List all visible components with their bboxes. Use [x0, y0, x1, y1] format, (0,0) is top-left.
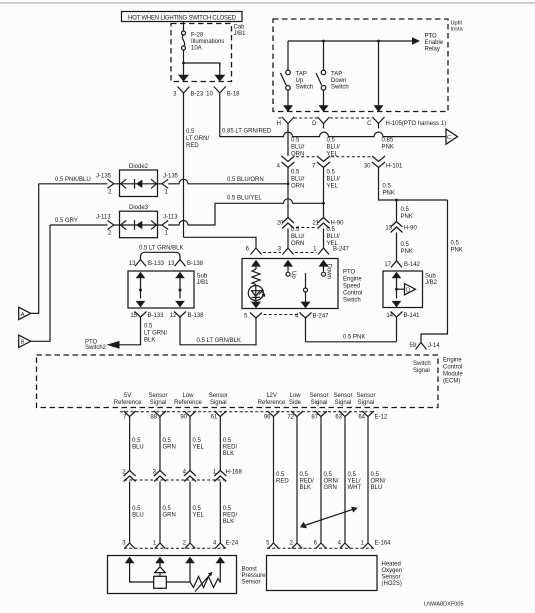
svg-text:Pressure: Pressure — [242, 573, 267, 579]
svg-text:B-138: B-138 — [187, 261, 204, 267]
svg-text:13: 13 — [129, 261, 136, 267]
connector B-247 pin 5 — [244, 313, 262, 323]
svg-text:BLU/: BLU/ — [327, 234, 341, 240]
svg-text:C: C — [367, 121, 372, 127]
svg-text:D: D — [312, 121, 317, 127]
svg-text:Module: Module — [443, 372, 463, 378]
svg-text:0.5: 0.5 — [144, 324, 153, 330]
connector E-24 bus dashes — [124, 547, 228, 549]
svg-text:Signal: Signal — [210, 400, 227, 406]
wire branch to right drop — [184, 63, 220, 66]
connector B-247 bottom bus dashes — [264, 314, 299, 316]
svg-text:B-138: B-138 — [188, 313, 205, 319]
svg-text:J/B2: J/B2 — [425, 280, 438, 286]
svg-text:LT GRN/: LT GRN/ — [144, 331, 167, 337]
svg-text:0.5 LT GRN/BLK: 0.5 LT GRN/BLK — [139, 245, 183, 251]
ECM pin 7 5V Reference — [114, 393, 142, 422]
switch contact Up — [286, 271, 296, 279]
ECM pin 88 Sensor Signal — [148, 393, 167, 422]
svg-text:B: B — [21, 340, 25, 346]
svg-text:0.5: 0.5 — [132, 438, 141, 444]
wire from ECM pin to H-168 pin 1 — [220, 422, 237, 470]
ECM pin 61 Sensor Signal — [209, 393, 228, 422]
J/B2 leg arrows and buffer D — [392, 272, 416, 308]
junction block Cab J/B1 (dashed box) — [171, 24, 246, 82]
connector H-168 bus dashes — [124, 479, 228, 481]
svg-text:0.5: 0.5 — [300, 472, 309, 478]
svg-text:13: 13 — [168, 261, 175, 267]
svg-text:Signal: Signal — [358, 400, 375, 406]
diode Diode2 — [114, 164, 158, 197]
svg-text:H: H — [277, 121, 281, 127]
svg-text:0.5 BLU/ORN: 0.5 BLU/ORN — [227, 177, 264, 183]
inline connector H-90 pin 21 — [312, 218, 344, 248]
connector H-105 pin D — [312, 117, 329, 129]
svg-text:TAP: TAP — [296, 72, 307, 78]
connector J-113 pin 2 (left of Diode3) — [96, 215, 114, 237]
wire to E-24 pin 3 — [130, 482, 144, 544]
svg-text:J/B1: J/B1 — [197, 280, 210, 286]
off-page triangle C right — [446, 129, 458, 144]
svg-text:J-135: J-135 — [96, 174, 112, 180]
svg-text:10A: 10A — [191, 46, 202, 52]
sensor pin entry arrow — [155, 557, 165, 568]
svg-text:Up: Up — [290, 271, 296, 279]
svg-text:Enable: Enable — [425, 40, 444, 46]
connector B-247 pin 6 — [246, 244, 262, 255]
svg-text:Low: Low — [289, 393, 301, 399]
svg-text:0.5: 0.5 — [163, 438, 172, 444]
wire from ECM pin to H-168 pin 3 — [160, 422, 176, 470]
wire LT GRN/RED corner to B-247 pin 6 — [184, 237, 257, 243]
connector J-14 pin 59 — [409, 343, 440, 350]
svg-text:0.5: 0.5 — [193, 438, 202, 444]
svg-text:61: 61 — [211, 414, 218, 420]
junction block Sub J/B1 — [128, 271, 209, 308]
wire to E-24 pin 1 — [160, 482, 176, 544]
junction block Sub J/B2 — [383, 271, 438, 308]
svg-text:B-133: B-133 — [148, 313, 165, 319]
wire 0.5 BLU/ORN from diode2 (hop over LT GRN/RED) — [168, 177, 288, 184]
svg-text:B-133: B-133 — [148, 261, 165, 267]
svg-text:13: 13 — [385, 226, 392, 232]
svg-text:Relay: Relay — [425, 47, 440, 53]
svg-text:0.5: 0.5 — [186, 129, 195, 135]
wire from ECM to E-164 pin 6 — [321, 422, 339, 543]
svg-text:Sub: Sub — [425, 274, 436, 280]
svg-text:Speed: Speed — [343, 284, 360, 290]
connector B-247 pin 4 — [295, 313, 329, 323]
svg-text:F-28: F-28 — [191, 33, 204, 39]
svg-text:88: 88 — [150, 414, 157, 420]
svg-text:E-12: E-12 — [375, 414, 388, 420]
svg-text:PNK: PNK — [382, 144, 394, 150]
svg-text:YEL/: YEL/ — [348, 479, 361, 485]
svg-text:Diode2: Diode2 — [129, 164, 149, 170]
svg-text:0.5: 0.5 — [401, 242, 410, 248]
connector H-105 pin H — [277, 117, 294, 129]
svg-text:BLK: BLK — [223, 519, 234, 525]
wire 0.5 LT GRN/BLK to B-247 pin 5 — [180, 322, 256, 345]
svg-text:0.5 GRY: 0.5 GRY — [55, 218, 78, 224]
connector B-18 pin 10 — [206, 87, 240, 103]
sensor pin entry arrow — [216, 557, 226, 568]
inline connector H-90 pin 20 — [277, 218, 305, 248]
svg-text:0.5 PNK/BLU: 0.5 PNK/BLU — [55, 177, 91, 183]
svg-text:H-168: H-168 — [226, 470, 243, 476]
svg-text:Side: Side — [289, 400, 302, 406]
pressure transducer element — [154, 567, 167, 589]
node BLU/YEL join — [322, 202, 325, 205]
svg-text:0.5: 0.5 — [132, 506, 141, 512]
pin 6 entry arrow — [251, 260, 261, 269]
svg-text:PNK: PNK — [401, 249, 413, 255]
connector B-23 pin 3 — [173, 87, 204, 103]
svg-text:H-101: H-101 — [386, 163, 403, 169]
svg-text:0.5: 0.5 — [327, 137, 336, 143]
svg-text:14: 14 — [386, 313, 393, 319]
svg-text:RED/: RED/ — [300, 479, 315, 485]
svg-text:87: 87 — [311, 414, 318, 420]
wire 0.5 PNK branch to H-90 pin 13 — [396, 200, 398, 222]
connector E-164 pin 6 — [314, 541, 327, 549]
inline connector H-168 pin 3 — [153, 470, 166, 482]
arrow into B-18 — [214, 63, 225, 82]
connector E-24 pin 1 — [153, 541, 166, 549]
svg-text:H-105(PTO harness 1): H-105(PTO harness 1) — [386, 121, 447, 127]
wire 0.5 PNK right branch — [421, 200, 463, 343]
svg-text:(HO2S): (HO2S) — [382, 581, 402, 587]
svg-text:30: 30 — [364, 163, 371, 169]
svg-text:Sensor: Sensor — [242, 580, 261, 586]
svg-text:Sensor: Sensor — [356, 393, 375, 399]
svg-text:ORN: ORN — [291, 184, 304, 190]
PTO Engine Speed Control Switch box — [242, 259, 362, 309]
svg-text:J-14: J-14 — [428, 343, 440, 349]
wire H vertical to B-247 pin3 — [287, 229, 289, 244]
svg-text:Insta: Insta — [451, 27, 464, 33]
svg-text:PNK: PNK — [383, 190, 395, 196]
connector E-164 pin 4 — [338, 541, 351, 549]
connector B-138 pin 12 — [170, 312, 204, 322]
connector E-24 pin 4 — [213, 541, 226, 549]
svg-text:B-247: B-247 — [333, 247, 350, 253]
pin 1 entry arrow — [319, 260, 329, 272]
wire B-141 to PNK run — [396, 322, 398, 342]
svg-text:YEL: YEL — [193, 513, 205, 519]
connector E-164 pin 5 — [266, 541, 279, 549]
svg-text:GRN: GRN — [324, 485, 337, 491]
connector J-135 pin 2 (left of Diode2) — [96, 174, 114, 196]
wire D vertical continue — [323, 168, 325, 218]
inline connector H-90 pin 13 — [385, 222, 417, 233]
wire to PTO Enable Relay — [288, 34, 444, 53]
wire 0.85 LT GRN/RED to triangle C — [220, 102, 446, 137]
wire 0.5 BLU/YEL from diode3 (hops) — [168, 196, 323, 225]
wire from ECM pin to H-168 pin 4 — [190, 422, 205, 470]
svg-text:YEL: YEL — [327, 184, 339, 190]
svg-text:Engine: Engine — [343, 277, 362, 283]
svg-text:J-135: J-135 — [163, 174, 179, 180]
svg-text:Sub: Sub — [197, 274, 208, 280]
svg-text:10: 10 — [206, 92, 213, 98]
LED exit arrow — [251, 301, 261, 309]
arrow TAP Up to H — [283, 90, 293, 112]
svg-text:BLU/: BLU/ — [291, 177, 305, 183]
inline connector H-168 pin 4 — [183, 470, 196, 482]
svg-text:Reference: Reference — [258, 400, 286, 406]
svg-text:Illuminations: Illuminations — [191, 39, 224, 45]
svg-text:YEL: YEL — [193, 445, 205, 451]
svg-text:Sensor: Sensor — [382, 575, 401, 581]
svg-text:H-90: H-90 — [404, 226, 418, 232]
svg-text:C: C — [447, 135, 451, 141]
svg-text:E-24: E-24 — [226, 541, 239, 547]
svg-text:5V: 5V — [124, 393, 131, 399]
svg-text:0.5: 0.5 — [193, 506, 202, 512]
svg-text:PNK: PNK — [451, 248, 463, 254]
banner HOT WHEN LIGHTING SWITCH CLOSED — [122, 12, 243, 22]
svg-text:Signal: Signal — [335, 400, 352, 406]
svg-text:J/B1: J/B1 — [234, 31, 247, 37]
connector J-135 pin 1 (right of Diode2) — [157, 174, 179, 196]
svg-text:Oxygen: Oxygen — [382, 568, 403, 574]
wire transducer to potentiometer — [166, 581, 190, 583]
connector B-138 pin 13 — [168, 260, 204, 268]
svg-text:Down: Down — [326, 264, 332, 279]
pin 3 entry arrow — [283, 260, 293, 272]
diode Diode3 — [114, 205, 158, 238]
wire 0.5 LT GRN/RED vertical — [183, 102, 185, 237]
svg-text:15: 15 — [130, 313, 137, 319]
svg-text:0.5: 0.5 — [383, 183, 392, 189]
connector E-164 bus dashes — [267, 547, 374, 549]
svg-text:LT GRN/: LT GRN/ — [186, 136, 209, 142]
ECM pin 90 Low Reference — [174, 393, 202, 422]
svg-text:B-141: B-141 — [404, 313, 421, 319]
svg-text:Reference: Reference — [114, 400, 142, 406]
connector B-247 pin 3 — [278, 244, 294, 255]
harness pointer arrow — [300, 507, 358, 529]
svg-text:Sensor: Sensor — [333, 393, 352, 399]
svg-text:Control: Control — [343, 291, 362, 297]
svg-text:RED: RED — [276, 479, 289, 485]
connector E-12 bus dashes — [120, 411, 374, 413]
svg-text:Low: Low — [182, 393, 194, 399]
svg-text:Signal: Signal — [413, 368, 430, 374]
Engine Control Module (ECM) dashed box — [37, 355, 464, 408]
svg-text:Sensor: Sensor — [209, 393, 228, 399]
svg-text:GRN: GRN — [163, 445, 176, 451]
wire to E-24 pin 2 — [190, 482, 205, 544]
svg-text:BLU/: BLU/ — [291, 144, 305, 150]
wire C vertical to PNK corner — [379, 168, 448, 201]
connector H-90 bus dashes — [296, 227, 316, 229]
svg-text:BLU/: BLU/ — [327, 177, 341, 183]
svg-text:12V: 12V — [266, 393, 277, 399]
Heated Oxygen Sensor box — [267, 556, 403, 591]
svg-text:0.5: 0.5 — [327, 227, 336, 233]
inline connector H-168 pin 1 — [213, 470, 226, 482]
svg-text:GRN: GRN — [163, 513, 176, 519]
wire from ECM to E-164 pin 4 — [345, 422, 361, 543]
svg-text:96: 96 — [264, 414, 271, 420]
wire H vertical (BLU/ORN) — [287, 129, 289, 157]
TAP Down Switch — [316, 41, 349, 91]
svg-text:Heated: Heated — [382, 562, 401, 568]
connector E-24 pin 3 — [122, 541, 135, 549]
svg-text:Sensor: Sensor — [148, 393, 167, 399]
svg-text:0.5: 0.5 — [401, 207, 410, 213]
svg-text:BLU: BLU — [371, 485, 383, 491]
svg-text:0.5: 0.5 — [371, 472, 380, 478]
node PNK branch — [395, 199, 398, 202]
wire 0.5 GRY — [50, 218, 108, 225]
svg-text:BLK: BLK — [144, 338, 155, 344]
svg-text:D: D — [406, 288, 410, 294]
svg-text:RED: RED — [186, 143, 199, 149]
svg-text:RED/: RED/ — [223, 513, 238, 519]
svg-text:BLK: BLK — [300, 485, 311, 491]
svg-text:ORN: ORN — [291, 241, 304, 247]
sensor internal bus wire — [130, 568, 154, 582]
svg-text:ORN/: ORN/ — [324, 479, 339, 485]
connector B-142 pin 17 — [384, 261, 420, 268]
connector J-113 pin 1 (right of Diode3) — [157, 215, 179, 237]
svg-text:0.5: 0.5 — [324, 472, 333, 478]
svg-text:B-23: B-23 — [191, 92, 204, 98]
wire 0.5 PNK to B-142 — [396, 233, 398, 261]
svg-text:Control: Control — [443, 365, 462, 371]
svg-text:TAP: TAP — [331, 72, 342, 78]
svg-text:Sensor: Sensor — [309, 393, 328, 399]
resistor (illumination) — [252, 269, 260, 285]
svg-text:Switch: Switch — [296, 85, 314, 91]
wire from ECM to E-164 pin 2 — [297, 422, 314, 543]
ECM pin 87 Sensor Signal — [309, 393, 328, 422]
svg-text:PNK: PNK — [401, 214, 413, 220]
svg-text:0.5 PNK: 0.5 PNK — [343, 335, 365, 341]
svg-text:HOT WHEN LIGHTING SWITCH CLOSE: HOT WHEN LIGHTING SWITCH CLOSED — [128, 15, 237, 21]
J/B1 left leg arrows — [136, 272, 146, 308]
off-page triangle A — [19, 184, 39, 320]
svg-text:RED/: RED/ — [223, 445, 238, 451]
TAP Up Switch — [281, 41, 314, 91]
sensor pin entry arrow — [125, 557, 135, 568]
svg-text:0.5: 0.5 — [163, 506, 172, 512]
svg-text:BLU/: BLU/ — [291, 234, 305, 240]
svg-text:E-164: E-164 — [375, 541, 392, 547]
wire from banner to fuse — [183, 22, 185, 32]
svg-text:0.5 BLU/YEL: 0.5 BLU/YEL — [227, 196, 262, 202]
connector B-247 pin 1 — [313, 244, 350, 255]
ECM pin 64 Sensor Signal — [356, 393, 375, 422]
wire fuse to branch junction — [183, 50, 185, 63]
svg-text:J-113: J-113 — [96, 215, 111, 221]
inline connector H-101 pin 30 — [364, 156, 403, 196]
ECM pin 63 Sensor Signal — [333, 393, 352, 422]
svg-text:Switch: Switch — [343, 298, 361, 304]
svg-text:0.5 LT GRN/BLK: 0.5 LT GRN/BLK — [197, 338, 241, 344]
svg-text:Switch2: Switch2 — [85, 345, 107, 351]
inline connector H-168 pin 2 — [122, 470, 135, 482]
svg-text:0.5: 0.5 — [348, 472, 357, 478]
connector E-24 pin 2 — [183, 541, 196, 549]
J/B1 right leg arrows — [175, 272, 185, 308]
svg-text:0.5: 0.5 — [223, 506, 232, 512]
svg-text:Engine: Engine — [443, 358, 462, 364]
wire from ECM pin to H-168 pin 2 — [130, 422, 144, 470]
node relay wire / C drop — [377, 40, 380, 43]
wire 0.5 PNK/BLU — [39, 177, 108, 184]
off-page triangle B — [19, 225, 50, 348]
connector B-247 top bus dashes — [263, 252, 281, 254]
svg-text:0.5: 0.5 — [223, 438, 232, 444]
svg-text:12: 12 — [170, 313, 177, 319]
connector B-133 pin 13 — [129, 260, 165, 268]
arrow into B-23 — [178, 63, 189, 82]
svg-text:Cab: Cab — [234, 25, 246, 31]
svg-text:WHT: WHT — [348, 485, 362, 491]
svg-text:0.5: 0.5 — [291, 170, 300, 176]
svg-text:64: 64 — [358, 414, 365, 420]
svg-text:0.5: 0.5 — [276, 472, 285, 478]
svg-text:0.85: 0.85 — [382, 137, 394, 143]
svg-text:Diode3: Diode3 — [129, 205, 149, 211]
connector H-105 dashed bus — [279, 117, 283, 119]
node relay wire / TAP down — [322, 40, 325, 43]
connector B-141 pin 14 — [386, 312, 420, 322]
LED lamp — [248, 285, 264, 301]
wire 0.5 LT GRN/BLK bracket — [139, 245, 183, 259]
svg-text:Up: Up — [296, 78, 304, 84]
svg-text:BLU/: BLU/ — [327, 144, 341, 150]
fuse F-28 Illuminations 10A — [182, 31, 225, 52]
sensor pin entry arrow — [185, 557, 195, 568]
inline connector H-101 pin 7 — [312, 156, 340, 190]
svg-text:59: 59 — [409, 343, 416, 349]
svg-text:Down: Down — [331, 78, 346, 84]
svg-text:Boost: Boost — [242, 567, 258, 573]
svg-text:ORN/: ORN/ — [371, 479, 386, 485]
wire D vertical to B-247 pin1 — [323, 229, 325, 244]
Boost Pressure Sensor box — [108, 556, 267, 594]
variable resistor (potentiometer) — [190, 568, 220, 592]
svg-text:72: 72 — [287, 414, 294, 420]
wire from ECM to E-164 pin 1 — [368, 422, 386, 543]
svg-text:(ECM): (ECM) — [443, 379, 460, 385]
node BLU/ORN join — [287, 182, 290, 185]
svg-text:J-113: J-113 — [163, 215, 178, 221]
svg-text:Switch: Switch — [413, 361, 431, 367]
svg-text:90: 90 — [180, 414, 187, 420]
svg-text:PTO: PTO — [343, 270, 356, 276]
svg-text:20: 20 — [277, 221, 284, 227]
svg-text:B-18: B-18 — [227, 92, 240, 98]
wire from ECM to E-164 pin 5 — [274, 422, 290, 543]
svg-text:PTO: PTO — [425, 34, 438, 40]
svg-text:B-247: B-247 — [313, 314, 330, 320]
page top border — [0, 2, 535, 4]
inline connector H-101 pin 4 — [277, 156, 305, 190]
svg-text:Signal: Signal — [150, 400, 167, 406]
connector E-164 pin 1 — [361, 541, 374, 549]
svg-text:Switch: Switch — [331, 85, 349, 91]
svg-text:LNWA8DXF005: LNWA8DXF005 — [424, 602, 464, 608]
svg-text:17: 17 — [384, 262, 391, 268]
svg-text:Reference: Reference — [174, 400, 202, 406]
wire H vertical continue — [287, 168, 289, 218]
